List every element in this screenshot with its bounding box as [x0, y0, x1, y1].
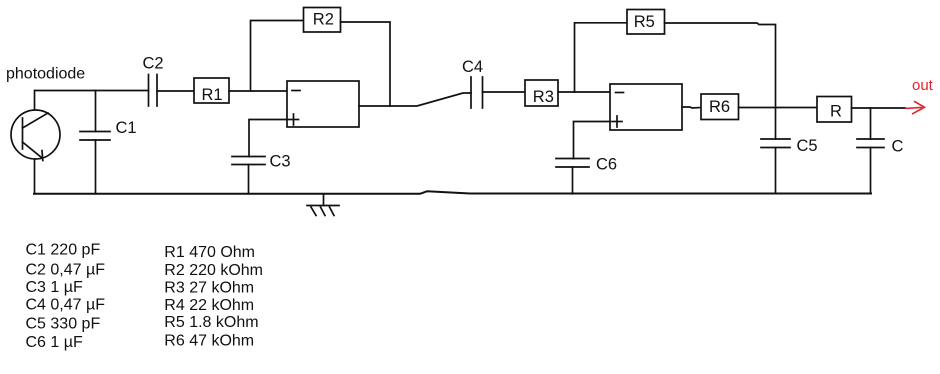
svg-text:C5: C5	[797, 137, 818, 155]
svg-text:C4: C4	[462, 58, 483, 76]
resistor R3	[525, 80, 558, 106]
wire C5 bottom	[775, 148, 777, 194]
photodiode	[11, 110, 60, 161]
svg-text:R5 1.8 kOhm: R5 1.8 kOhm	[164, 314, 258, 331]
wire C bottom	[870, 148, 872, 194]
svg-text:C6: C6	[596, 156, 617, 174]
wire top rail left	[35, 91, 149, 111]
svg-text:R1 470 Ohm: R1 470 Ohm	[164, 244, 255, 261]
capacitor C3	[232, 157, 265, 165]
pin minus U1	[292, 90, 300, 92]
capacitor C6	[556, 159, 589, 168]
ground	[307, 194, 339, 216]
svg-text:C3 1 µF: C3 1 µF	[26, 279, 83, 296]
pin minus U2	[616, 92, 624, 94]
op-amp U1	[287, 81, 359, 127]
svg-text:R: R	[830, 103, 842, 121]
wire U2 plus input down to C6	[574, 122, 611, 159]
capacitor C4	[471, 77, 483, 108]
wire R5 left leg	[575, 23, 628, 92]
value list column 1	[26, 241, 106, 351]
capacitor C	[857, 139, 884, 148]
capacitor C2	[149, 75, 158, 107]
svg-text:C3: C3	[270, 153, 291, 171]
svg-text:R6: R6	[709, 98, 730, 116]
wire photodiode bottom	[34, 159, 36, 194]
svg-text:C1: C1	[116, 119, 137, 137]
svg-text:R3: R3	[533, 88, 554, 106]
out arrow	[906, 102, 925, 114]
svg-text:C2 0,47 µF: C2 0,47 µF	[26, 262, 106, 279]
svg-text:C5 330 pF: C5 330 pF	[26, 316, 101, 333]
wire R1 to op-amp U1	[229, 90, 287, 92]
wire U1 plus input down to C3	[249, 120, 287, 157]
svg-text:C1 220 pF: C1 220 pF	[26, 241, 101, 258]
svg-text:C4 0,47 µF: C4 0,47 µF	[26, 297, 106, 314]
wire C1 top	[95, 91, 97, 132]
value list column 2	[164, 244, 263, 349]
svg-text:R6 47 kOhm: R6 47 kOhm	[164, 333, 254, 350]
wire R to out	[852, 107, 906, 109]
capacitor C1	[80, 132, 110, 141]
resistor R5	[627, 10, 665, 35]
wire C1 bottom	[95, 140, 97, 194]
op-amp U2	[610, 84, 682, 130]
wire R6 to R	[739, 107, 818, 109]
svg-text:C: C	[892, 138, 904, 156]
wire U2 output to R6	[682, 107, 701, 108]
wire R2 right leg	[341, 22, 391, 106]
svg-text:R2: R2	[313, 11, 334, 29]
svg-text:R2 220 kOhm: R2 220 kOhm	[164, 262, 263, 279]
svg-text:R3 27 kOhm: R3 27 kOhm	[164, 280, 254, 297]
wire R5 right leg	[665, 23, 776, 139]
wire C6 bottom	[572, 167, 574, 194]
pin plus U2	[612, 116, 622, 127]
wire C4 to R3	[483, 91, 526, 93]
svg-text:C2: C2	[143, 55, 164, 73]
svg-text:photodiode: photodiode	[6, 66, 85, 83]
svg-text:C6 1 µF: C6 1 µF	[26, 334, 83, 351]
capacitor C5	[761, 139, 790, 148]
svg-text:R1: R1	[202, 86, 223, 104]
resistor R2	[304, 8, 341, 33]
wire C3 bottom	[248, 165, 250, 194]
wire R3 to op-amp U2	[558, 91, 610, 93]
svg-text:R4 22 kOhm: R4 22 kOhm	[164, 297, 254, 314]
resistor R1	[194, 78, 229, 103]
wire bottom ground rail	[34, 191, 871, 194]
resistor R6	[701, 94, 739, 120]
resistor R	[817, 97, 852, 123]
pin plus U1	[289, 114, 299, 125]
wire C2 to R1	[157, 90, 194, 92]
wire R2 left leg	[251, 21, 304, 92]
wire node down to C	[870, 108, 872, 139]
svg-text:R5: R5	[634, 13, 655, 31]
svg-text:out: out	[912, 77, 934, 94]
wire U1 output	[359, 93, 471, 106]
